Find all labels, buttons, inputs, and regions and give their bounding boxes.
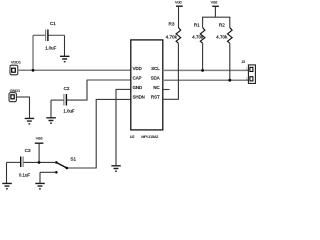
connector GND1 [9, 88, 20, 102]
svg-text:VDD: VDD [133, 66, 142, 71]
power Vdd (bottom) [35, 135, 44, 162]
power Vdd (above R3) [175, 0, 183, 27]
svg-text:1.0uF: 1.0uF [63, 108, 75, 113]
ground (C3) [2, 183, 12, 188]
wire C2 riser [86, 80, 88, 100]
ground (U2 GND) [111, 166, 121, 171]
wire RST riser to R3 [177, 43, 179, 99]
wire C2 right lead [67, 99, 88, 101]
wire SHDN drop [95, 99, 97, 168]
ground (GND1) [25, 118, 35, 123]
svg-text:SCL: SCL [151, 66, 160, 71]
svg-text:Vdd: Vdd [211, 0, 218, 5]
wire GND drop [115, 89, 117, 165]
svg-text:CAP: CAP [133, 75, 142, 80]
svg-text:SHDN: SHDN [133, 94, 145, 99]
junction node SCL/R1 [201, 69, 204, 72]
svg-text:C2: C2 [64, 86, 70, 91]
wire C3 to ground [6, 162, 8, 183]
wire GND1 drop [29, 97, 31, 118]
switch S1 [55, 157, 76, 174]
svg-text:U2: U2 [130, 135, 135, 139]
resistor R3 [169, 22, 181, 44]
ground (S1) [35, 183, 45, 188]
svg-text:0.1uF: 0.1uF [19, 173, 31, 178]
svg-text:S1: S1 [70, 157, 76, 162]
wire U2 GND pin to ground [116, 88, 131, 90]
svg-text:1.0uF: 1.0uF [45, 46, 57, 51]
wire SHDN to S1 common [67, 167, 97, 169]
capacitor C1 [33, 21, 65, 41]
svg-text:GND1: GND1 [10, 88, 20, 93]
wire C3 to S1 top throw [23, 161, 56, 163]
wire R2 to SDA [229, 43, 231, 79]
svg-text:C1: C1 [50, 21, 56, 26]
svg-text:GND: GND [133, 85, 143, 90]
svg-text:R3: R3 [169, 22, 175, 27]
capacitor C2 [51, 86, 70, 105]
ground (C2) [46, 118, 56, 123]
resistor R2 [219, 22, 232, 43]
capacitor C3 [7, 148, 31, 167]
svg-text:R2: R2 [219, 22, 225, 27]
wire C1 to ground [64, 35, 66, 56]
svg-text:4.70k: 4.70k [192, 34, 204, 39]
svg-text:4.70k: 4.70k [166, 34, 178, 39]
wire S1 ground drop [39, 172, 41, 183]
wire S1 bottom throw to ground [40, 171, 56, 173]
svg-text:VDD1: VDD1 [11, 60, 21, 65]
svg-text:J3: J3 [241, 60, 245, 64]
wire NC stub [163, 89, 170, 91]
wire U2 CAP pin to C2 [87, 79, 131, 81]
wire C1 lead down [32, 35, 34, 69]
svg-text:SDA: SDA [151, 75, 160, 80]
svg-text:MPL115A2: MPL115A2 [141, 135, 158, 139]
wire GND1 to ground [16, 96, 30, 98]
svg-text:4.70k: 4.70k [216, 34, 228, 39]
svg-text:Vdd: Vdd [175, 0, 182, 5]
wire C2 to ground [50, 100, 52, 117]
wire Vdd splitter to R1 and R2 [202, 17, 230, 27]
wire R1 to SCL [202, 43, 204, 69]
svg-text:RST: RST [151, 94, 160, 99]
wire U2 SHDN pin to switch S1 [96, 98, 131, 100]
wire SCL net U2 to J3 pin1 [163, 69, 249, 71]
IC U2 MPL115A2 (body) [131, 40, 163, 130]
connector VDD1 [10, 60, 21, 75]
svg-text:Vdd: Vdd [36, 135, 43, 140]
power Vdd (above R1 R2) [211, 0, 219, 17]
resistor R1 [194, 22, 205, 43]
wire VDD1 to U2 VDD pin [18, 69, 131, 71]
connector J3 [241, 60, 255, 83]
wire RST net [163, 98, 179, 100]
svg-text:R1: R1 [194, 22, 200, 27]
junction node SDA/R2 [228, 79, 231, 82]
ground (C1) [60, 56, 70, 61]
svg-text:C3: C3 [25, 148, 31, 153]
svg-text:NC: NC [153, 85, 159, 90]
junction node Vdd/C3 [38, 161, 41, 164]
junction node VDD1/C1 [32, 69, 35, 72]
wire SDA net U2 to J3 pin2 [163, 79, 249, 81]
